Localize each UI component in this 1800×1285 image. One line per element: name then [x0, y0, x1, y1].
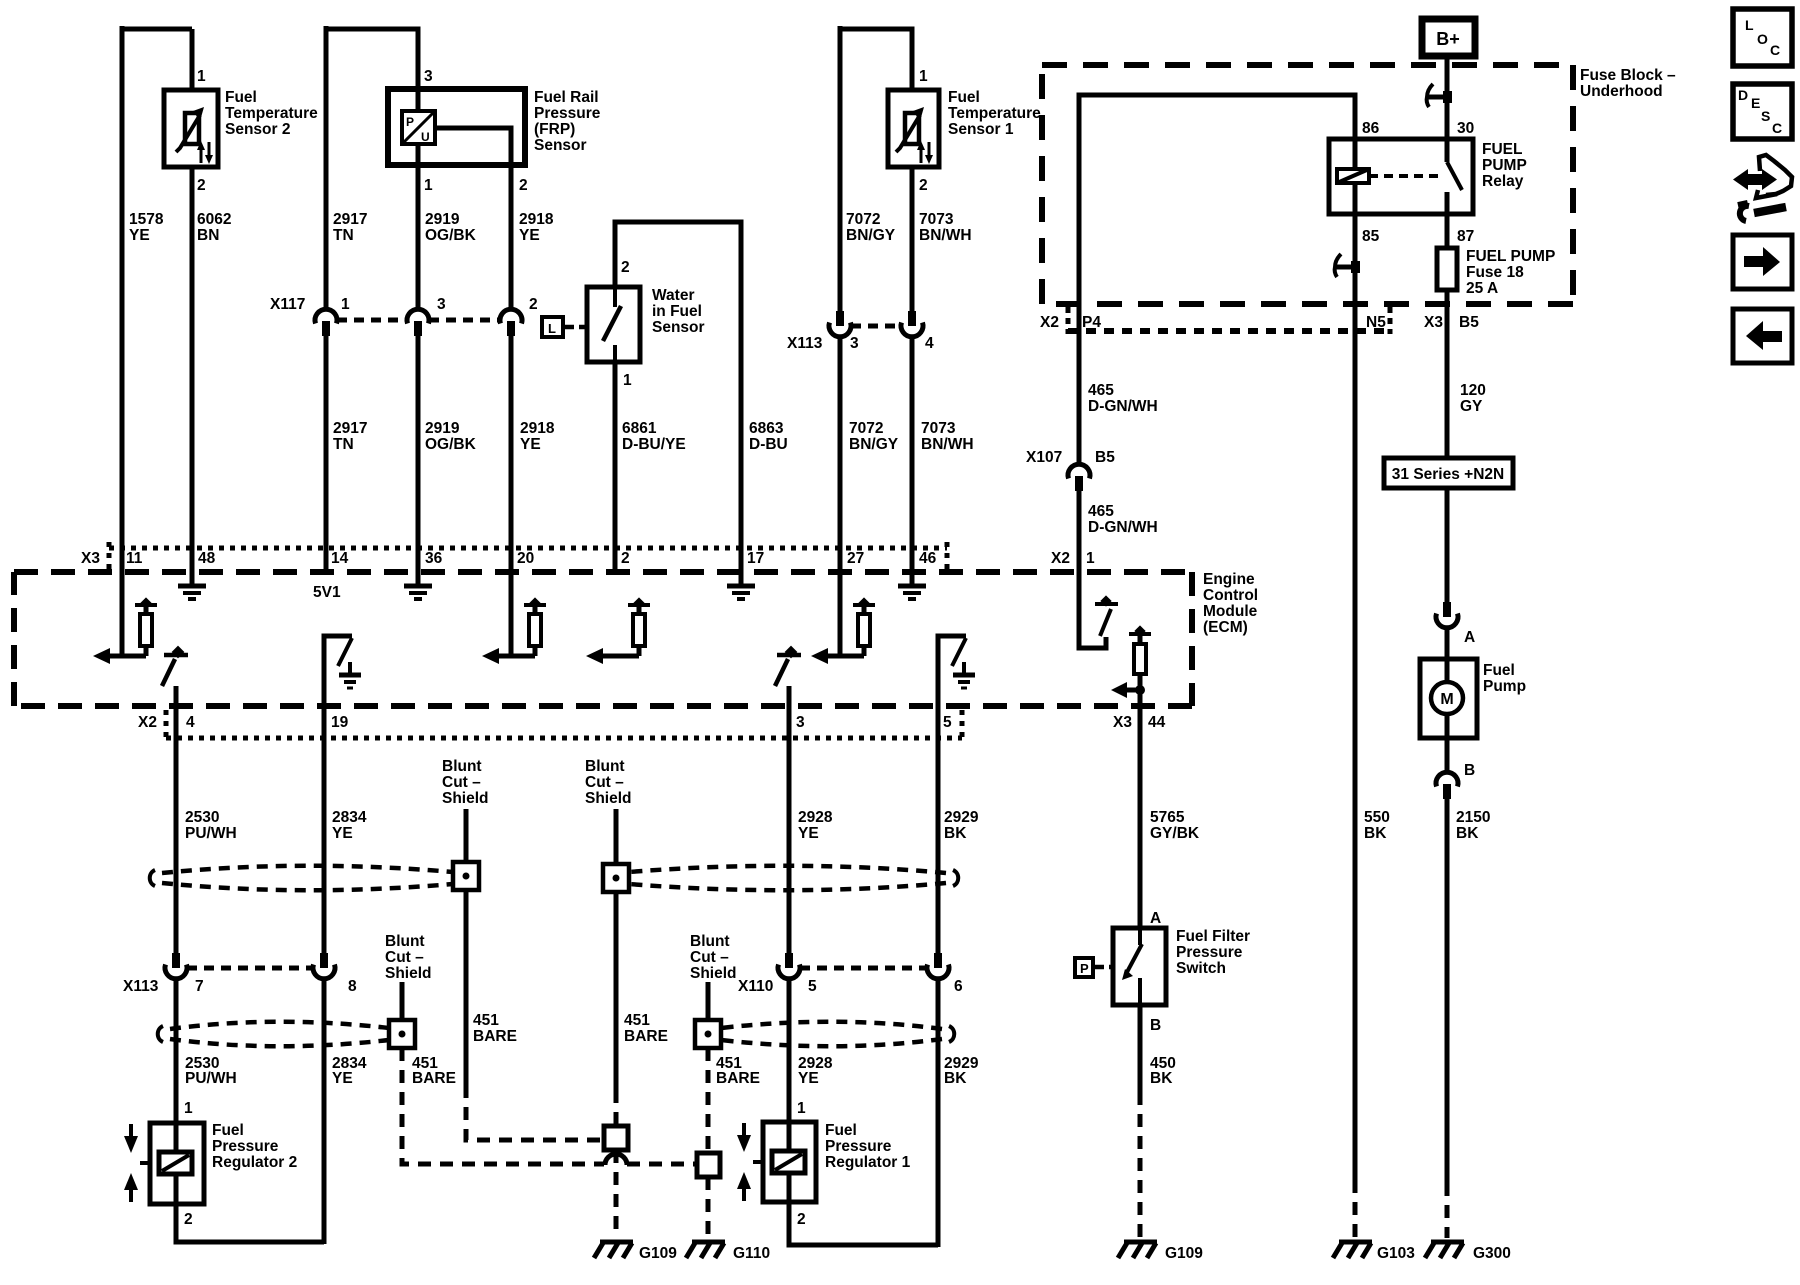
svg-text:2530: 2530 — [185, 809, 219, 826]
svg-text:2: 2 — [529, 296, 538, 313]
svg-text:G110: G110 — [733, 1245, 770, 1262]
svg-text:YE: YE — [332, 1070, 353, 1087]
svg-text:451: 451 — [624, 1012, 650, 1029]
svg-text:451: 451 — [473, 1012, 499, 1029]
svg-text:1: 1 — [1086, 550, 1095, 567]
svg-text:B: B — [1464, 762, 1475, 779]
svg-text:14: 14 — [331, 550, 349, 567]
svg-text:E: E — [1751, 95, 1760, 111]
svg-text:X2: X2 — [1051, 550, 1070, 567]
svg-text:25 A: 25 A — [1466, 280, 1498, 297]
svg-text:GY: GY — [1460, 398, 1483, 415]
svg-text:L: L — [548, 321, 556, 336]
svg-text:27: 27 — [847, 550, 864, 567]
svg-text:Fuel Filter: Fuel Filter — [1176, 928, 1250, 945]
svg-text:D-GN/WH: D-GN/WH — [1088, 398, 1158, 415]
svg-text:7073: 7073 — [921, 420, 956, 437]
svg-text:Pressure: Pressure — [825, 1138, 892, 1155]
svg-text:Temperature: Temperature — [225, 105, 318, 122]
svg-text:Fuel: Fuel — [212, 1122, 244, 1139]
svg-text:Fuel: Fuel — [948, 89, 980, 106]
svg-text:2: 2 — [621, 259, 630, 276]
svg-text:FUEL PUMP: FUEL PUMP — [1466, 248, 1555, 265]
svg-text:U: U — [421, 130, 430, 144]
svg-text:11: 11 — [126, 550, 143, 567]
svg-text:87: 87 — [1457, 228, 1474, 245]
svg-text:X117: X117 — [270, 296, 305, 313]
svg-text:1578: 1578 — [129, 211, 164, 228]
svg-text:2917: 2917 — [333, 420, 367, 437]
svg-text:BARE: BARE — [473, 1028, 517, 1045]
svg-text:Cut –: Cut – — [585, 774, 624, 791]
svg-text:6062: 6062 — [197, 211, 231, 228]
svg-text:7: 7 — [195, 978, 204, 995]
svg-text:B5: B5 — [1459, 314, 1479, 331]
svg-text:465: 465 — [1088, 382, 1114, 399]
svg-text:(FRP): (FRP) — [534, 121, 575, 138]
svg-text:Fuel Rail: Fuel Rail — [534, 89, 599, 106]
svg-text:5: 5 — [943, 714, 952, 731]
svg-text:Pump: Pump — [1483, 678, 1526, 695]
svg-text:Pressure: Pressure — [212, 1138, 279, 1155]
svg-text:1: 1 — [797, 1100, 806, 1117]
svg-text:Sensor: Sensor — [652, 319, 705, 336]
svg-text:D-BU: D-BU — [749, 436, 788, 453]
svg-text:X2: X2 — [1040, 314, 1059, 331]
svg-text:6863: 6863 — [749, 420, 784, 437]
svg-text:Regulator 2: Regulator 2 — [212, 1154, 297, 1171]
svg-text:B5: B5 — [1095, 449, 1115, 466]
svg-text:X113: X113 — [123, 978, 159, 995]
svg-text:36: 36 — [425, 550, 443, 567]
svg-text:YE: YE — [798, 825, 819, 842]
svg-text:TN: TN — [333, 227, 354, 244]
svg-text:Pressure: Pressure — [1176, 944, 1243, 961]
svg-text:BARE: BARE — [716, 1070, 760, 1087]
svg-text:YE: YE — [332, 825, 353, 842]
svg-text:Shield: Shield — [585, 790, 632, 807]
svg-text:5: 5 — [808, 978, 817, 995]
svg-text:120: 120 — [1460, 382, 1486, 399]
svg-text:YE: YE — [129, 227, 150, 244]
svg-text:7072: 7072 — [846, 211, 880, 228]
svg-text:in Fuel: in Fuel — [652, 303, 702, 320]
svg-text:2150: 2150 — [1456, 809, 1490, 826]
svg-text:C: C — [1772, 120, 1782, 136]
svg-text:1: 1 — [184, 1100, 193, 1117]
svg-text:YE: YE — [519, 227, 540, 244]
svg-text:3: 3 — [850, 335, 859, 352]
svg-text:BK: BK — [1364, 825, 1387, 842]
svg-text:2929: 2929 — [944, 809, 979, 826]
svg-text:5765: 5765 — [1150, 809, 1185, 826]
svg-text:PU/WH: PU/WH — [185, 1070, 237, 1087]
svg-text:17: 17 — [747, 550, 764, 567]
svg-text:BK: BK — [944, 1070, 967, 1087]
svg-text:P: P — [406, 115, 414, 129]
svg-text:Fuse Block –: Fuse Block – — [1580, 67, 1676, 84]
svg-text:S: S — [1761, 108, 1770, 124]
svg-text:BARE: BARE — [624, 1028, 668, 1045]
svg-text:Cut –: Cut – — [690, 949, 729, 966]
svg-text:46: 46 — [919, 550, 937, 567]
svg-text:Relay: Relay — [1482, 173, 1524, 190]
svg-text:7073: 7073 — [919, 211, 954, 228]
svg-text:Pressure: Pressure — [534, 105, 601, 122]
svg-text:2917: 2917 — [333, 211, 367, 228]
svg-text:D-GN/WH: D-GN/WH — [1088, 519, 1158, 536]
svg-text:8: 8 — [348, 978, 357, 995]
svg-text:Temperature: Temperature — [948, 105, 1041, 122]
svg-text:BK: BK — [1456, 825, 1479, 842]
svg-text:465: 465 — [1088, 503, 1114, 520]
svg-text:Cut –: Cut – — [385, 949, 424, 966]
svg-text:BN/WH: BN/WH — [919, 227, 972, 244]
svg-text:X107: X107 — [1026, 449, 1062, 466]
svg-text:30: 30 — [1457, 120, 1474, 137]
svg-text:2928: 2928 — [798, 809, 833, 826]
svg-text:N5: N5 — [1366, 314, 1386, 331]
svg-text:2919: 2919 — [425, 420, 460, 437]
svg-text:G300: G300 — [1473, 1245, 1511, 1262]
svg-text:A: A — [1464, 629, 1475, 646]
svg-text:2: 2 — [197, 177, 206, 194]
svg-text:1: 1 — [919, 68, 928, 85]
svg-text:550: 550 — [1364, 809, 1390, 826]
svg-text:31 Series +N2N: 31 Series +N2N — [1392, 466, 1504, 483]
svg-text:YE: YE — [520, 436, 541, 453]
svg-text:PUMP: PUMP — [1482, 157, 1527, 174]
svg-text:BARE: BARE — [412, 1070, 456, 1087]
svg-text:Blunt: Blunt — [585, 758, 625, 775]
svg-text:Shield: Shield — [690, 965, 737, 982]
svg-text:Blunt: Blunt — [690, 933, 730, 950]
svg-text:Fuse 18: Fuse 18 — [1466, 264, 1524, 281]
svg-text:G109: G109 — [1165, 1245, 1203, 1262]
svg-text:BN/WH: BN/WH — [921, 436, 974, 453]
svg-text:Engine: Engine — [1203, 571, 1255, 588]
svg-text:BK: BK — [944, 825, 967, 842]
svg-text:20: 20 — [517, 550, 534, 567]
svg-text:G103: G103 — [1377, 1245, 1415, 1262]
svg-text:Fuel: Fuel — [225, 89, 257, 106]
svg-text:1: 1 — [341, 296, 350, 313]
svg-text:2: 2 — [621, 550, 630, 567]
svg-text:D: D — [1738, 87, 1748, 103]
svg-text:1: 1 — [623, 372, 632, 389]
svg-text:19: 19 — [331, 714, 349, 731]
svg-text:Shield: Shield — [385, 965, 432, 982]
svg-text:6: 6 — [954, 978, 963, 995]
svg-text:YE: YE — [798, 1070, 819, 1087]
svg-text:O: O — [1757, 31, 1768, 47]
svg-text:Fuel: Fuel — [1483, 662, 1515, 679]
svg-text:2918: 2918 — [519, 211, 554, 228]
svg-text:Cut –: Cut – — [442, 774, 481, 791]
svg-text:M: M — [1440, 691, 1453, 708]
svg-text:2: 2 — [519, 177, 528, 194]
svg-text:Sensor: Sensor — [534, 137, 587, 154]
svg-text:PU/WH: PU/WH — [185, 825, 237, 842]
svg-text:BN: BN — [197, 227, 219, 244]
svg-text:Regulator 1: Regulator 1 — [825, 1154, 911, 1171]
svg-text:2834: 2834 — [332, 809, 367, 826]
svg-text:P: P — [1080, 961, 1089, 976]
svg-text:2: 2 — [184, 1211, 193, 1228]
svg-text:Water: Water — [652, 287, 695, 304]
svg-text:Sensor 1: Sensor 1 — [948, 121, 1014, 138]
svg-text:FUEL: FUEL — [1482, 141, 1522, 158]
svg-text:G109: G109 — [639, 1245, 677, 1262]
svg-text:BN/GY: BN/GY — [849, 436, 899, 453]
svg-text:86: 86 — [1362, 120, 1380, 137]
svg-text:X2: X2 — [138, 714, 157, 731]
svg-text:2919: 2919 — [425, 211, 460, 228]
svg-text:3: 3 — [437, 296, 446, 313]
svg-text:1: 1 — [424, 177, 433, 194]
svg-text:B: B — [1150, 1017, 1161, 1034]
svg-text:L: L — [1745, 17, 1754, 33]
svg-text:Switch: Switch — [1176, 960, 1226, 977]
svg-text:7072: 7072 — [849, 420, 883, 437]
svg-text:BN/GY: BN/GY — [846, 227, 896, 244]
svg-text:X110: X110 — [738, 978, 773, 995]
svg-text:B+: B+ — [1436, 29, 1460, 49]
svg-text:5V1: 5V1 — [313, 584, 341, 601]
svg-text:4: 4 — [186, 714, 195, 731]
svg-text:Module: Module — [1203, 603, 1258, 620]
svg-text:X3: X3 — [81, 550, 100, 567]
svg-text:44: 44 — [1148, 714, 1166, 731]
svg-text:2918: 2918 — [520, 420, 555, 437]
svg-text:OG/BK: OG/BK — [425, 436, 477, 453]
svg-text:OG/BK: OG/BK — [425, 227, 477, 244]
svg-text:3: 3 — [424, 68, 433, 85]
svg-text:4: 4 — [925, 335, 934, 352]
svg-text:X3: X3 — [1424, 314, 1443, 331]
svg-text:(ECM): (ECM) — [1203, 619, 1248, 636]
svg-text:Sensor 2: Sensor 2 — [225, 121, 290, 138]
svg-text:GY/BK: GY/BK — [1150, 825, 1200, 842]
svg-text:X113: X113 — [787, 335, 823, 352]
svg-text:A: A — [1150, 910, 1161, 927]
svg-text:D-BU/YE: D-BU/YE — [622, 436, 686, 453]
svg-text:C: C — [1770, 42, 1780, 58]
svg-text:6861: 6861 — [622, 420, 657, 437]
svg-text:48: 48 — [198, 550, 216, 567]
svg-text:Control: Control — [1203, 587, 1258, 604]
svg-text:Underhood: Underhood — [1580, 83, 1663, 100]
svg-text:Fuel: Fuel — [825, 1122, 857, 1139]
svg-text:2: 2 — [797, 1211, 806, 1228]
svg-text:TN: TN — [333, 436, 354, 453]
svg-text:85: 85 — [1362, 228, 1380, 245]
svg-text:Blunt: Blunt — [385, 933, 425, 950]
svg-text:3: 3 — [796, 714, 805, 731]
svg-text:P4: P4 — [1082, 314, 1101, 331]
svg-text:BK: BK — [1150, 1070, 1173, 1087]
svg-text:Shield: Shield — [442, 790, 489, 807]
svg-text:X3: X3 — [1113, 714, 1132, 731]
svg-text:1: 1 — [197, 68, 206, 85]
svg-text:2: 2 — [919, 177, 928, 194]
svg-text:Blunt: Blunt — [442, 758, 482, 775]
